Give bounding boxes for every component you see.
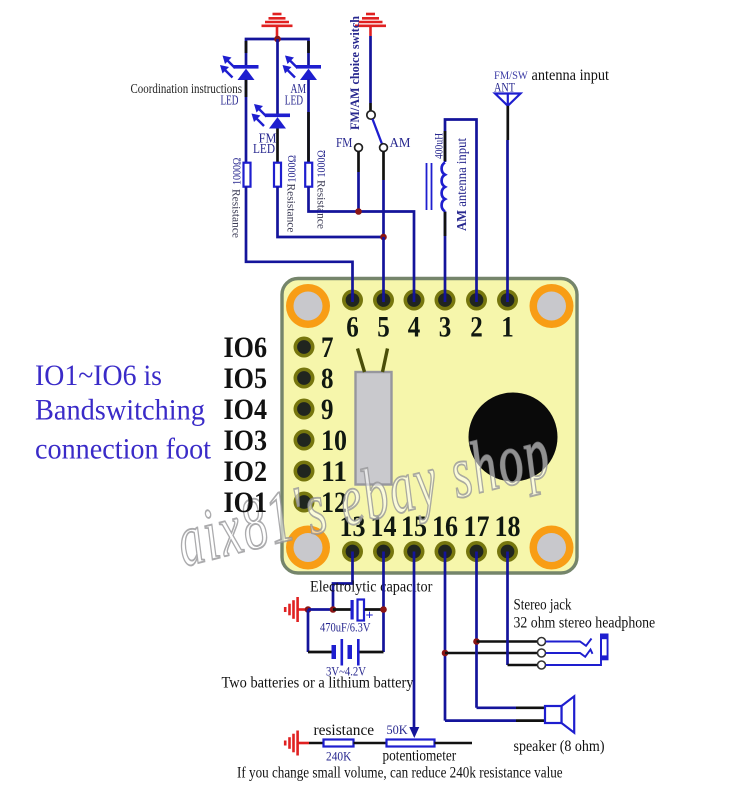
wire black stub right bus corner (307, 41, 310, 53)
svg-text:7: 7 (321, 331, 334, 364)
junction node pin16/jack ring (442, 650, 449, 657)
switch AM throw contact (380, 144, 388, 152)
wire black stub above R3 (307, 112, 310, 162)
wire R1 to pin 6 (246, 187, 353, 302)
junction node FM/R3 (355, 208, 362, 215)
inductor L1 winding (442, 163, 445, 212)
mounting hole bottom-right (530, 526, 574, 570)
pin 7 pad (294, 337, 315, 358)
wire black stub left bus corner (245, 41, 248, 53)
svg-text:IO6: IO6 (224, 331, 268, 364)
mounting hole bottom-left (286, 526, 330, 570)
stereo jack J1 sleeve terminal (538, 661, 546, 669)
junction node at LED bus (274, 36, 281, 43)
wire R4 to RV1 (black) (354, 742, 387, 745)
svg-text:connection foot: connection foot (35, 433, 212, 466)
wire pin 17 down (475, 552, 478, 708)
wire pin 14 down (382, 552, 385, 653)
svg-text:LED: LED (285, 93, 303, 108)
capacitor C1 positive plate (358, 600, 365, 621)
radio module U1 body (282, 279, 577, 574)
svg-text:IO3: IO3 (224, 424, 268, 457)
wire pin16 to speaker (-) (445, 719, 516, 722)
wire L1 bottom to pin 3 (444, 211, 447, 302)
svg-text:IO1: IO1 (224, 486, 268, 519)
inductor L1 core lines (426, 163, 428, 210)
jack sleeve wire (546, 660, 602, 666)
svg-text:IO5: IO5 (224, 362, 268, 395)
svg-text:resistance: resistance (314, 722, 375, 739)
svg-text:LED: LED (221, 93, 239, 108)
potentiometer RV1 50K (387, 740, 435, 747)
junction node pin13/capacitor (330, 606, 337, 613)
wire FM contact to node (357, 172, 360, 212)
svg-text:3: 3 (439, 311, 452, 344)
wire FM contact down (black) (357, 152, 360, 173)
wire sleeve stub (black) (508, 664, 538, 667)
pin 18 pad (497, 541, 518, 562)
inductor L1 top wire to pin 2 (445, 120, 477, 303)
pin 5 pad (373, 290, 394, 311)
wire AM contact to node (382, 180, 385, 237)
pin 14 pad (373, 541, 394, 562)
ground symbol (switch) (355, 14, 386, 36)
junction node ground/battery (305, 606, 312, 613)
LED D3 (FM LED) (265, 114, 290, 129)
LED D2 (AM LED) (296, 65, 321, 80)
pin 10 pad (294, 430, 315, 451)
jack sleeve body (600, 634, 609, 661)
wire battery plus to pin14 branch (black) (360, 651, 384, 654)
wire node to pin 5 (382, 237, 385, 302)
svg-text:6: 6 (346, 311, 359, 344)
jack ring contact spring (546, 650, 593, 657)
junction node pin14/capacitor/battery (380, 606, 387, 613)
resistor R4 240K (324, 740, 354, 747)
svg-text:10: 10 (321, 424, 347, 457)
svg-text:FM/AM choice switch: FM/AM choice switch (347, 15, 362, 130)
speaker LS1 (545, 696, 574, 732)
wire antenna to pin 1 (black) (506, 106, 509, 140)
potentiometer wiper arrow head (409, 727, 419, 738)
pin 9 pad (294, 399, 315, 420)
wire R3 to pin 4 (309, 187, 415, 302)
pin 13 pad (342, 541, 363, 562)
stereo jack J1 tip terminal (538, 638, 546, 646)
wire D1 anode to R1 (245, 80, 248, 164)
wire pin 18 to jack sleeve contact (506, 552, 509, 666)
IC chip blob (black epoxy) (469, 393, 558, 482)
wire ground node to pin13 node (308, 608, 333, 611)
LED D1 emission arrows (220, 56, 235, 78)
svg-text:240K: 240K (326, 750, 351, 764)
resistor R1 (244, 163, 251, 187)
wire node to capacitor negative plate (black) (333, 608, 351, 611)
svg-text:IO2: IO2 (224, 455, 268, 488)
svg-text:1000Ω: 1000Ω (232, 158, 244, 186)
pin 2 pad (466, 290, 487, 311)
LED D3 emission arrows (252, 104, 267, 126)
svg-text:2: 2 (470, 311, 483, 344)
wire D2 anode to R3 (307, 80, 310, 164)
wire R2 to pin 5 (278, 187, 384, 237)
switch FM throw contact (355, 144, 363, 152)
pin 17 pad (466, 541, 487, 562)
svg-text:470uF/6.3V: 470uF/6.3V (320, 620, 371, 635)
switch SW1 lever (373, 119, 383, 144)
wire black stub below D1 (245, 80, 248, 97)
wire pin 13 to capacitor node (333, 552, 353, 610)
battery BT1 plates (332, 639, 360, 666)
svg-text:If you change small volume, ca: If you change small volume, can reduce 2… (237, 765, 563, 782)
switch SW1 pole contact (367, 111, 375, 119)
wire D3 anode to R2 (black) (276, 129, 279, 164)
wire ground to switch pole (369, 36, 372, 103)
svg-text:Two batteries or a lithium bat: Two batteries or a lithium battery (222, 675, 414, 692)
svg-text:1: 1 (501, 311, 514, 344)
wire AM contact down (black) (382, 152, 385, 181)
svg-text:1000Ω: 1000Ω (316, 150, 328, 178)
wire LED supply bus (246, 39, 309, 66)
pin 4 pad (404, 290, 425, 311)
antenna symbol (495, 94, 521, 106)
wire capacitor to pin14 node (black) (365, 608, 384, 611)
wire node to jack ring contact (black) (445, 652, 538, 655)
svg-text:LED: LED (253, 141, 275, 156)
svg-text:potentiometer: potentiometer (383, 748, 457, 765)
pin 8 pad (294, 368, 315, 389)
svg-text:AM antenna input: AM antenna input (454, 138, 469, 231)
svg-text:5: 5 (377, 311, 390, 344)
wire pin 15 to potentiometer wiper (413, 552, 416, 729)
stereo jack J1 ring terminal (538, 649, 546, 657)
pin 1 pad (497, 290, 518, 311)
junction node pin17/jack tip (473, 638, 480, 645)
svg-text:antenna input: antenna input (532, 67, 610, 84)
svg-text:Resistance: Resistance (230, 189, 242, 238)
wire to battery minus (black) (308, 651, 332, 654)
LED D2 emission arrows (283, 56, 298, 78)
wire ground to R4 (black) (309, 742, 324, 745)
svg-text:Resistance: Resistance (285, 184, 297, 233)
svg-text:IO1~IO6 is: IO1~IO6 is (35, 359, 162, 392)
pin 11 pad (294, 461, 315, 482)
svg-text:Bandswitching: Bandswitching (35, 394, 205, 427)
wire node to jack tip contact (black) (477, 640, 538, 643)
svg-text:speaker (8 ohm): speaker (8 ohm) (514, 738, 605, 755)
crystal Y1 (356, 349, 392, 485)
ground symbol (battery negative) (285, 597, 308, 622)
mounting hole top-right (530, 284, 574, 328)
wire pin17 to speaker (+) (477, 706, 517, 709)
pin 6 pad (342, 290, 363, 311)
wire black stub above L1 (444, 131, 447, 161)
wire black stub below L1 (444, 212, 447, 236)
svg-text:FM: FM (336, 135, 352, 150)
pin 16 pad (435, 541, 456, 562)
LED D1 (Coordination instructions LED) (234, 65, 259, 80)
svg-text:AM: AM (390, 135, 411, 150)
resistor R3 (305, 163, 312, 187)
mounting hole top-left (286, 284, 330, 328)
wire speaker (+) black (516, 706, 546, 709)
svg-text:Resistance: Resistance (315, 180, 327, 229)
svg-text:18: 18 (495, 510, 521, 543)
ground symbol (volume network) (285, 731, 309, 756)
wire battery loop left (307, 610, 310, 653)
svg-text:1000Ω: 1000Ω (287, 155, 299, 183)
ground symbol (top, LED branch) (262, 14, 293, 39)
svg-text:400uH: 400uH (434, 133, 446, 159)
pin 3 pad (435, 290, 456, 311)
junction node AM/R2 (380, 234, 387, 241)
svg-text:Stereo jack: Stereo jack (514, 597, 572, 614)
wire bus to D3 (276, 39, 279, 114)
pin 12 pad (294, 492, 315, 513)
svg-text:32 ohm stereo headphone: 32 ohm stereo headphone (514, 615, 656, 632)
svg-text:8: 8 (321, 362, 334, 395)
capacitor C1 negative plate (351, 600, 354, 620)
wire speaker (-) black (516, 719, 546, 722)
svg-text:50K: 50K (387, 723, 408, 737)
svg-text:4: 4 (408, 311, 421, 344)
wire pin 16 down (444, 552, 447, 721)
wire RV1 right (black) (435, 742, 473, 745)
wire antenna to pin 1 (506, 140, 509, 302)
svg-text:IO4: IO4 (224, 393, 268, 426)
svg-text:17: 17 (464, 510, 490, 543)
wire black stub above pole (369, 103, 372, 111)
pin 15 pad (404, 541, 425, 562)
jack tip contact spring (546, 639, 592, 646)
svg-text:9: 9 (321, 393, 334, 426)
resistor R2 (274, 163, 281, 187)
